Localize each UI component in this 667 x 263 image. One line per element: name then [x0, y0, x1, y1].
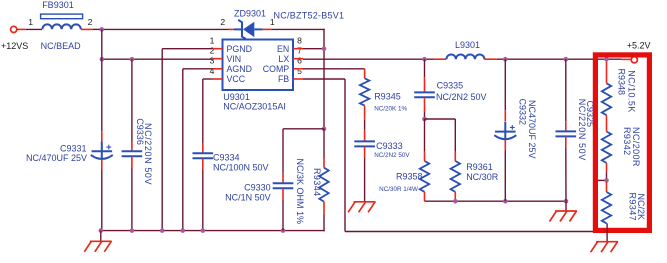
junction ground rail x283: [281, 228, 286, 233]
svg-text:PGND: PGND: [227, 44, 252, 54]
wire to junction: [92, 28, 102, 30]
wire +5.2V terminal stub: [622, 58, 631, 60]
wire zener pin2 stub: [229, 28, 235, 30]
wire C9331 bottom stub: [101, 160, 103, 170]
wire +12V rail to zener: [102, 28, 229, 30]
wire U9301 left pin stub 1: [213, 48, 223, 50]
junction mid rail C9325: [564, 199, 569, 204]
wire L9301 pin1 stub: [434, 58, 447, 60]
svg-text:8: 8: [297, 36, 302, 46]
wire R9344 upper: [323, 129, 325, 158]
junction ground rail x182: [181, 228, 186, 233]
wire C9335 to node: [424, 111, 426, 119]
wire C9334 bottom stub: [202, 159, 204, 170]
svg-text:1: 1: [270, 17, 275, 27]
svg-text:C9335: C9335: [437, 80, 464, 90]
wire L9301 pin2 stub: [484, 58, 497, 60]
svg-text:NC/220N 50V: NC/220N 50V: [143, 123, 153, 185]
svg-text:NC/220N 50V: NC/220N 50V: [577, 99, 587, 161]
wire C9333 to ground: [364, 157, 366, 202]
wire U9301 left pin stub 3: [213, 68, 223, 70]
svg-text:2: 2: [88, 17, 93, 27]
wire C9332 to rail: [504, 150, 506, 201]
capacitor C9336: [122, 151, 143, 156]
ferrite bead FB9301 symbol: [41, 14, 83, 19]
svg-text:AGND: AGND: [227, 64, 252, 74]
wire jog to C9330: [283, 129, 324, 173]
wire C9330 top stub: [282, 173, 284, 183]
wire C9334 top stub: [202, 143, 204, 153]
wire C9336 to rail: [131, 168, 133, 231]
junction output at C9325: [564, 57, 569, 62]
wire EN net: [303, 49, 324, 129]
junction ground rail x202: [201, 228, 206, 233]
svg-text:R9361: R9361: [466, 162, 493, 172]
svg-text:NC/20K 1%: NC/20K 1%: [374, 106, 407, 113]
svg-text:NC/AOZ3015AI: NC/AOZ3015AI: [223, 101, 286, 111]
capacitor C9330: [273, 183, 294, 188]
wire C9336 top stub: [131, 141, 133, 151]
svg-text:R9358: R9358: [396, 172, 423, 182]
wire output rail: [497, 58, 622, 60]
svg-text:NC/1N 50V: NC/1N 50V: [225, 192, 271, 202]
svg-text:2: 2: [220, 17, 225, 27]
wire zener to EN corner: [272, 29, 325, 49]
wire R9361 top stub: [454, 152, 456, 161]
wire C9330 bottom stub: [282, 188, 284, 199]
wire mid ground rail: [425, 200, 567, 202]
svg-text:7: 7: [297, 46, 302, 56]
wire C9325 bottom stub: [565, 136, 567, 147]
junction ground rail x131: [130, 228, 135, 233]
wire C9335 top stub: [424, 77, 426, 92]
svg-text:+5.2V: +5.2V: [627, 41, 651, 51]
wire FB9301 pin2 stub: [81, 28, 93, 30]
svg-text:NC/2K: NC/2K: [636, 194, 646, 221]
svg-text:NC/3K OHM 1%: NC/3K OHM 1%: [295, 159, 305, 225]
wire VCC net: [203, 79, 213, 143]
junction mid rail C9332: [503, 199, 508, 204]
wire R9361 bottom stub: [454, 192, 456, 201]
capacitor C9331: [91, 142, 113, 159]
junction output at divider: [604, 57, 609, 62]
svg-text:FB9301: FB9301: [42, 0, 74, 10]
wire R9358 bottom stub: [424, 192, 426, 201]
svg-text:R9348: R9348: [617, 69, 627, 96]
svg-text:L9301: L9301: [455, 40, 480, 50]
wire R9342 bottom stub: [606, 163, 608, 173]
wire R9358 upper: [424, 119, 426, 152]
svg-text:C9333: C9333: [376, 141, 403, 151]
svg-text:R9347: R9347: [628, 193, 638, 222]
svg-text:5: 5: [297, 66, 302, 76]
wire C9331 branch upper: [101, 29, 103, 131]
resistor R9342: [602, 132, 611, 163]
wire C9333 bottom stub: [364, 146, 366, 157]
capacitor C9325: [556, 131, 577, 136]
wire C9325 branch: [565, 59, 567, 121]
resistor R9347: [602, 192, 611, 223]
wire C9334 to rail: [202, 169, 204, 230]
wire R9358 top stub: [424, 152, 426, 161]
wire FB net: [303, 79, 607, 232]
wire C9332 bottom stub: [504, 140, 506, 150]
wire C9335 branch: [424, 59, 426, 77]
wire COMP net: [303, 68, 365, 71]
ground symbol left: [84, 241, 112, 252]
capacitor C9335: [414, 92, 435, 97]
wire R9345 to C9333: [364, 120, 366, 130]
wire AGND net: [183, 69, 213, 231]
svg-text:NC/30R 1/4W: NC/30R 1/4W: [379, 186, 418, 193]
wire R9348 top stub: [606, 62, 608, 84]
wire C9332 top stub: [504, 110, 506, 121]
svg-text:NC/200R: NC/200R: [631, 127, 641, 167]
svg-text:NC/2N2 50V: NC/2N2 50V: [374, 152, 410, 159]
ground symbol mid: [550, 211, 578, 222]
wire R9344 to rail: [323, 215, 325, 232]
wire U9301 right pin stub 6: [293, 68, 303, 70]
wire C9331 top stub: [101, 131, 103, 141]
svg-text:R9345: R9345: [374, 92, 401, 102]
wire C9325 top stub: [565, 121, 567, 131]
svg-text:NC/BEAD: NC/BEAD: [41, 41, 82, 51]
svg-text:NC/30R: NC/30R: [466, 172, 499, 182]
junction R9344 top node: [322, 127, 327, 132]
junction node +12V: [100, 27, 105, 32]
wire mid ground stub: [565, 201, 567, 211]
svg-text:NC/100N 50V: NC/100N 50V: [213, 162, 269, 172]
wire left ground rail: [101, 230, 325, 232]
svg-text:NC470UF 25V: NC470UF 25V: [527, 100, 537, 159]
svg-text:2: 2: [210, 46, 215, 56]
wire R9345 bottom stub: [364, 106, 366, 120]
op-amp U9301 body: [223, 40, 294, 91]
wire C9331 to rail: [101, 170, 103, 231]
wire U9301 left pin stub 4: [213, 78, 223, 80]
wire zener pin1 stub: [263, 28, 272, 30]
wire C9335 bottom stub: [424, 98, 426, 111]
svg-text:C9331: C9331: [60, 143, 87, 153]
wire C9336 bottom stub: [131, 157, 133, 168]
capacitor C9332: [494, 122, 516, 139]
wire U9301 right pin stub 7: [293, 58, 303, 60]
svg-text:C9332: C9332: [518, 99, 528, 126]
capacitor C9333: [354, 141, 375, 146]
wire R9342 to FB node: [606, 172, 608, 180]
junction output at C9332: [503, 57, 508, 62]
svg-text:NC/2N2 50V: NC/2N2 50V: [436, 92, 487, 102]
wire R9344 top stub: [323, 158, 325, 168]
resistor R9345: [360, 78, 369, 105]
svg-text:1: 1: [210, 36, 215, 46]
wire node to R9361: [425, 119, 456, 152]
junction R9358 node: [422, 117, 427, 122]
svg-text:1: 1: [28, 17, 33, 27]
wire C9332 branch: [504, 59, 506, 110]
wire C9330 to rail: [282, 199, 284, 230]
wire U9301 right pin stub 5: [293, 78, 303, 80]
terminal +12VS: [11, 26, 17, 32]
wire R9347 to ground: [606, 223, 608, 241]
junction LX at C9335: [422, 57, 427, 62]
junction VIN at C9331: [100, 57, 105, 62]
wire U9301 left pin stub 2: [213, 58, 223, 60]
svg-text:3: 3: [210, 56, 215, 66]
junction ground rail x162: [160, 228, 165, 233]
wire U9301 right pin stub 8: [293, 48, 303, 50]
wire PGND net: [162, 49, 213, 231]
wire C9336 branch upper: [131, 59, 133, 141]
red highlight box around divider network: [595, 55, 649, 231]
svg-text:R9344: R9344: [312, 168, 322, 197]
ground symbol under C9333: [348, 202, 376, 213]
svg-text:R9342: R9342: [622, 127, 632, 156]
svg-text:6: 6: [297, 56, 302, 66]
wire R9344 bottom stub: [323, 202, 325, 215]
ferrite bead FB9301 coils: [42, 24, 80, 29]
inductor L9301: [446, 54, 484, 59]
svg-text:NC/470UF 25V: NC/470UF 25V: [26, 153, 87, 163]
junction EN node: [322, 46, 327, 51]
wire LX net: [303, 58, 434, 60]
resistor R9361: [451, 161, 460, 192]
svg-text:ZD9301: ZD9301: [234, 9, 266, 19]
svg-text:4: 4: [210, 66, 215, 76]
svg-text:NC/BZT52-B5V1: NC/BZT52-B5V1: [274, 11, 345, 21]
terminal +5.2V: [631, 57, 637, 63]
svg-text:VCC: VCC: [227, 74, 246, 84]
junction ground rail x100: [99, 228, 104, 233]
ground symbol right: [591, 242, 619, 253]
svg-text:FB: FB: [278, 74, 289, 84]
junction VIN at C9336: [130, 57, 135, 62]
resistor R9358: [420, 161, 429, 192]
wire terminal to FB9301: [17, 28, 26, 30]
svg-text:COMP: COMP: [263, 64, 290, 74]
junction FB divider node: [604, 178, 609, 183]
wire C9333 top stub: [364, 130, 366, 142]
zener diode ZD9301: [234, 20, 263, 39]
wire VIN net: [102, 58, 213, 60]
resistor R9348: [602, 83, 611, 115]
wire R9347 top stub: [606, 182, 608, 192]
capacitor C9334: [193, 153, 214, 158]
wire R9348-R9342 stub: [606, 115, 608, 131]
svg-text:EN: EN: [277, 44, 289, 54]
wire ground stub left: [100, 231, 102, 242]
svg-text:C9330: C9330: [244, 182, 271, 192]
svg-text:VIN: VIN: [227, 54, 242, 64]
svg-text:C9334: C9334: [213, 152, 240, 162]
svg-text:NC/10.5K: NC/10.5K: [627, 70, 637, 113]
svg-text:+12VS: +12VS: [1, 41, 28, 51]
svg-text:LX: LX: [278, 54, 289, 64]
junction mid rail R9361: [453, 199, 458, 204]
wire: [26, 28, 42, 30]
wire C9325 to rail: [565, 147, 567, 201]
resistor R9344: [319, 168, 328, 202]
wire R9345 top stub: [364, 69, 366, 79]
